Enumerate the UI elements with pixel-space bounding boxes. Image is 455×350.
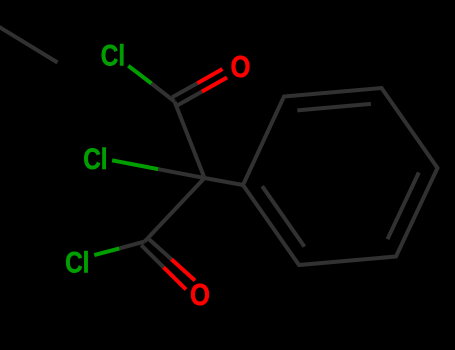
stray bond fragment top-left corner — [0, 24, 58, 63]
benzene inner double bond right (V4-V5) — [388, 173, 419, 240]
benzene ring outline — [243, 88, 438, 265]
double bond C3=O2 line b (carbon half, dark) — [141, 245, 163, 267]
bond C1-Cl1 (chlorine half, green) — [128, 66, 151, 84]
double bond C3=O2 line b (oxygen half, red) — [164, 267, 186, 289]
svg-text:O: O — [190, 278, 210, 313]
benzene inner double bond top (V2-V3) — [297, 104, 371, 111]
bond C1-C2 (dark) — [175, 102, 205, 179]
bond C3-Cl3 (chlorine half, green) — [94, 248, 119, 255]
double bond C1=O1 line b (oxygen half, red) — [202, 78, 227, 92]
bond C3-Cl3 (carbon half, dark) — [119, 242, 144, 249]
bond C2-ring (dark) — [205, 178, 244, 185]
double bond C1=O1 line b (carbon half, dark) — [177, 92, 202, 106]
benzene inner double bond lower-left (V6-V1) — [262, 186, 304, 246]
bond C1-Cl1 (carbon half, dark) — [152, 84, 175, 102]
bond C2-Cl2 (carbon half, dark) — [158, 169, 204, 178]
double bond C3=O2 line a (carbon half, dark) — [148, 238, 172, 259]
svg-text:Cl: Cl — [101, 38, 125, 72]
bond C2-Cl2 (chlorine half, green) — [112, 160, 158, 169]
svg-text:O: O — [231, 50, 251, 85]
svg-text:Cl: Cl — [65, 245, 89, 279]
double bond C1=O1 line a (oxygen half, red) — [197, 69, 222, 83]
svg-text:Cl: Cl — [83, 142, 107, 176]
double bond C1=O1 line a (carbon half, dark) — [172, 83, 197, 97]
bond C2-C3 (dark) — [145, 178, 205, 242]
double bond C3=O2 line a (oxygen half, red) — [171, 259, 195, 280]
